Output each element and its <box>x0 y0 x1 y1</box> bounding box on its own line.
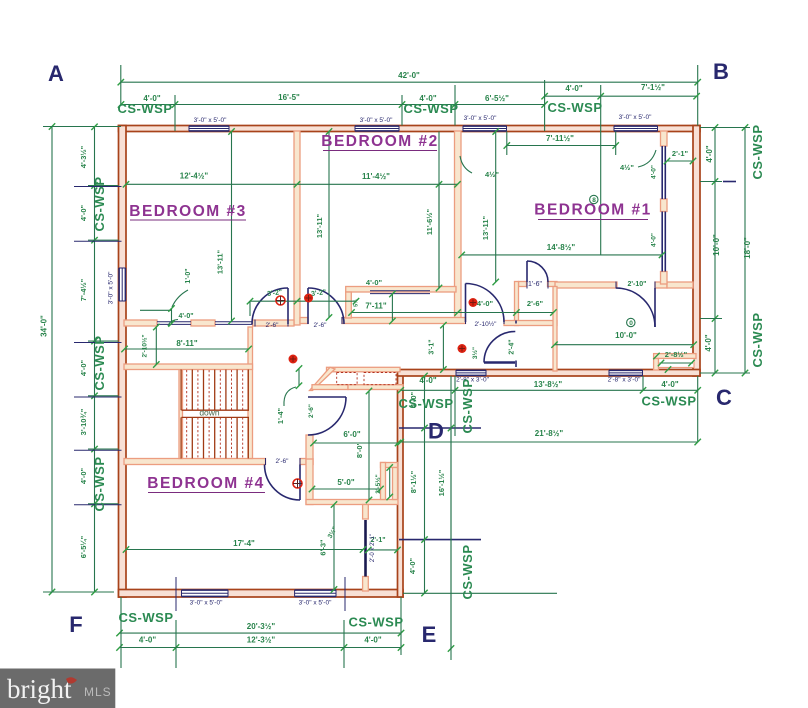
dimension row: 4-0 / 16-5 / 4-0 / 6-5half <box>121 104 545 106</box>
svg-text:10'-0": 10'-0" <box>615 331 637 340</box>
svg-text:CS-WSP: CS-WSP <box>92 177 107 232</box>
left outside dimension column 34ft <box>51 127 53 593</box>
dimension row right: 4-0 / 7-1half <box>545 95 697 97</box>
svg-text:BEDROOM #3: BEDROOM #3 <box>129 203 247 220</box>
bedroom4 north wall <box>124 459 266 465</box>
svg-text:4'-0": 4'-0" <box>139 636 156 645</box>
bath west wall (bottom section) <box>306 459 313 505</box>
window bedroom1 top-left 3-0x5-0 <box>463 126 507 131</box>
svg-text:17'-4": 17'-4" <box>233 539 255 548</box>
svg-text:4'-0": 4'-0" <box>651 233 658 247</box>
door bedroom2 (leaf + arc) <box>307 288 309 324</box>
svg-text:5½: 5½ <box>353 299 360 307</box>
dim 17-4 bedroom4 <box>126 549 363 551</box>
door at hall (swings up) <box>484 361 515 363</box>
exterior wall: east of bottom section <box>398 371 404 597</box>
dim 21-8half <box>401 441 698 443</box>
svg-text:12'-4½": 12'-4½" <box>180 172 209 181</box>
window hall bottom 2-8x3-0 <box>456 370 486 376</box>
svg-text:3'-0" x 5'-0": 3'-0" x 5'-0" <box>190 600 223 607</box>
svg-text:2'-4": 2'-4" <box>509 339 516 354</box>
svg-text:42'-0": 42'-0" <box>398 71 420 80</box>
svg-text:4'-0": 4'-0" <box>79 467 88 484</box>
vertical dim bedroom3 13-11 <box>231 132 233 322</box>
svg-text:CS-WSP: CS-WSP <box>750 313 765 368</box>
svg-text:CS-WSP: CS-WSP <box>460 545 475 600</box>
svg-text:3'-0" x 5'-0": 3'-0" x 5'-0" <box>108 271 115 304</box>
smoke detector markers (red) <box>276 296 285 305</box>
bedroom2 closet north wall <box>346 287 456 293</box>
bottom outside dims 20-3half and 4-0/12-3half/4-0 <box>120 632 402 634</box>
svg-text:7'-1½": 7'-1½" <box>641 83 665 92</box>
svg-text:5'-0": 5'-0" <box>337 478 354 487</box>
svg-text:2'-6": 2'-6" <box>266 322 280 329</box>
hall west wall above bedroom4 <box>306 435 313 465</box>
pantry closet: north wall <box>327 367 401 372</box>
dim 2-1 top right <box>667 160 693 162</box>
interior wall: bedroom2 south <box>300 318 308 324</box>
svg-text:MLS: MLS <box>84 685 112 699</box>
svg-text:C: C <box>716 385 732 410</box>
svg-text:3'-1": 3'-1" <box>429 339 436 354</box>
niche frame in bath east side <box>381 463 398 468</box>
svg-text:10'-0": 10'-0" <box>712 234 721 256</box>
closet/vestibule south wall <box>504 321 557 326</box>
svg-text:34'-0": 34'-0" <box>40 315 49 337</box>
svg-text:CS-WSP: CS-WSP <box>92 457 107 512</box>
door jamb marks <box>254 320 256 327</box>
navy braced-wall markers on left wall <box>74 186 122 188</box>
dim 7-11 bedroom2 closet <box>352 312 554 314</box>
svg-text:2'-6": 2'-6" <box>276 458 290 465</box>
dim 2-5half niche <box>389 468 391 498</box>
svg-text:6'-5½": 6'-5½" <box>485 94 509 103</box>
svg-text:3'-0" x 5'-0": 3'-0" x 5'-0" <box>360 117 393 124</box>
windows in bedroom1 east wall <box>661 146 663 199</box>
door bedroom3 (leaf + arc) <box>287 288 289 324</box>
svg-text:2'-6": 2'-6" <box>527 299 544 308</box>
svg-text:4'-0": 4'-0" <box>79 204 88 221</box>
exterior wall: top <box>119 126 701 132</box>
navy matchline D <box>399 427 481 429</box>
svg-text:CS-WSP: CS-WSP <box>118 101 173 116</box>
svg-text:13'-11": 13'-11" <box>481 216 490 241</box>
room dim line 12-4half / 11-4half <box>126 183 458 185</box>
svg-text:14'-8½": 14'-8½" <box>547 243 576 252</box>
stair west wall <box>179 370 183 459</box>
svg-text:bright: bright <box>7 674 72 704</box>
door hall to bath (bottom section) <box>308 396 346 398</box>
bright MLS watermark <box>0 669 115 708</box>
svg-text:1'-0": 1'-0" <box>185 268 192 283</box>
svg-text:CS-WSP: CS-WSP <box>460 379 475 434</box>
svg-text:2'-6": 2'-6" <box>308 404 315 418</box>
svg-text:16'-5": 16'-5" <box>278 93 300 102</box>
svg-text:4'-0": 4'-0" <box>364 636 381 645</box>
interior wall band y282-288 from bath to right window wall <box>519 282 527 287</box>
navy braced-wall markers on bottom wall <box>175 577 177 611</box>
svg-text:4'-0": 4'-0" <box>79 359 88 376</box>
svg-text:4'-0": 4'-0" <box>661 380 678 389</box>
svg-text:7'-4½": 7'-4½" <box>79 278 88 301</box>
window bedroom1 top-right 3-0x5-0 <box>614 126 658 131</box>
dimension 42ft-0 top <box>121 81 698 83</box>
svg-text:2'-1": 2'-1" <box>672 149 689 158</box>
navy closet headers in bedroom3 south wall <box>157 321 191 323</box>
svg-text:CS-WSP: CS-WSP <box>548 100 603 115</box>
svg-text:20'-3½": 20'-3½" <box>247 622 276 631</box>
bedroom1 east window wall with mullion posts <box>661 131 668 146</box>
bedroom2 closet west wall <box>346 292 352 318</box>
door bathroom2 entry <box>654 288 656 327</box>
windows bedroom4 bottom 3-0x5-0 <box>182 590 229 597</box>
svg-text:21'-8½": 21'-8½" <box>535 429 564 438</box>
svg-text:CS-WSP: CS-WSP <box>750 125 765 180</box>
svg-text:13'-11": 13'-11" <box>216 250 225 275</box>
door bedroom4 <box>299 465 301 501</box>
svg-text:3'-0" x 5'-0": 3'-0" x 5'-0" <box>619 114 652 121</box>
door bedroom1 vestibule <box>465 284 467 323</box>
dim 3-2 doors row <box>250 300 356 302</box>
svg-text:3'-0" x 5'-0": 3'-0" x 5'-0" <box>194 117 227 124</box>
svg-text:2'-10½": 2'-10½" <box>141 334 149 357</box>
svg-text:1'-4": 1'-4" <box>276 407 285 424</box>
vertical dim bedroom2 13-11 <box>328 132 330 318</box>
svg-text:4'-0": 4'-0" <box>705 145 714 162</box>
svg-text:2'-6": 2'-6" <box>314 322 328 329</box>
vertical dim bedroom2 11-6half <box>438 184 440 288</box>
linen closet west wall <box>515 282 519 326</box>
dim 1-4 hall <box>298 369 300 386</box>
svg-text:2'-10": 2'-10" <box>628 281 647 288</box>
svg-text:D: D <box>428 419 444 444</box>
svg-text:6'-0": 6'-0" <box>343 430 360 439</box>
window in bedroom4 east wall <box>364 520 367 577</box>
vertical dim bedroom1 13-11 <box>495 132 497 283</box>
svg-text:8'-1½": 8'-1½" <box>409 470 418 493</box>
svg-text:3'-0" x 5'-0": 3'-0" x 5'-0" <box>299 600 332 607</box>
interior wall: bedroom3 south / hall north, with closet openings <box>124 320 157 326</box>
svg-text:B: B <box>713 59 729 84</box>
svg-text:down: down <box>199 408 220 418</box>
landing east wall / bedroom3 closet east wall <box>248 327 253 459</box>
svg-text:CS-WSP: CS-WSP <box>92 336 107 391</box>
bath south wall <box>306 500 398 505</box>
svg-text:8'-0": 8'-0" <box>355 441 364 458</box>
svg-text:2'-10½": 2'-10½" <box>475 320 498 328</box>
svg-text:CS-WSP: CS-WSP <box>404 101 459 116</box>
svg-text:3½": 3½" <box>471 347 479 359</box>
svg-text:BEDROOM #1: BEDROOM #1 <box>534 202 652 219</box>
svg-text:7'-11½": 7'-11½" <box>546 134 574 143</box>
svg-text:4'-0": 4'-0" <box>477 299 494 308</box>
svg-text:2'-8½": 2'-8½" <box>665 350 688 359</box>
exterior wall: bottom of main right section <box>398 370 701 377</box>
svg-text:6'-3": 6'-3" <box>319 539 328 556</box>
left dim ticks column <box>94 127 96 592</box>
dim 5-0 bath <box>312 488 381 490</box>
pantry diagonal wall <box>310 367 336 390</box>
svg-text:4'-0": 4'-0" <box>408 557 417 574</box>
svg-text:CS-WSP: CS-WSP <box>399 396 454 411</box>
exterior wall: left <box>119 126 127 598</box>
window bathroom2 bottom 2-8x3-0 <box>609 370 643 376</box>
dim 3-1 hall <box>442 325 444 369</box>
svg-text:4½": 4½" <box>485 170 499 179</box>
dim 6-3 3/8 bedroom4 <box>333 505 335 590</box>
vertical dim stack x424: 4-0 / 8-1half / 4-0 <box>424 376 426 593</box>
svg-text:11'-6½": 11'-6½" <box>425 208 434 235</box>
bathroom2 (10ft room) west wall <box>553 287 557 372</box>
svg-text:4'-0": 4'-0" <box>565 84 582 93</box>
svg-text:3'-0" x 5'-0": 3'-0" x 5'-0" <box>464 115 497 122</box>
svg-text:A: A <box>48 61 64 86</box>
svg-text:16'-1½": 16'-1½" <box>437 469 446 496</box>
dim 2-1 east closet <box>368 549 397 551</box>
closet depth dim <box>391 294 393 321</box>
svg-text:F: F <box>69 612 82 637</box>
exterior wall: right of main section <box>693 126 700 377</box>
door linen closet 1-6 <box>526 261 528 282</box>
pantry south wall <box>312 385 348 390</box>
svg-text:4½": 4½" <box>620 163 634 172</box>
bedroom4 east closet: wall stub + window <box>363 505 369 520</box>
window bedroom2 top 3-0x5-0 <box>355 126 399 131</box>
dim 8-11 bedroom3 closet <box>125 348 249 350</box>
bedroom3 closet south wall <box>124 364 253 370</box>
svg-text:CS-WSP: CS-WSP <box>119 610 174 625</box>
dim 2-10half closet <box>155 327 157 365</box>
svg-text:CS-WSP: CS-WSP <box>642 394 697 409</box>
svg-text:2'-8" x 3'-0": 2'-8" x 3'-0" <box>608 377 641 384</box>
window left wall bedroom3 3-0x5-0 <box>119 268 126 301</box>
svg-text:E: E <box>422 622 437 647</box>
svg-text:13'-11": 13'-11" <box>315 214 324 239</box>
svg-text:3'-10¾": 3'-10¾" <box>79 408 88 435</box>
pantry red dashed shelves <box>337 373 357 385</box>
svg-text:1'-6": 1'-6" <box>528 281 542 288</box>
exterior wall: bottom of bedroom4 section <box>119 590 404 598</box>
interior wall between bedroom3 and bedroom2 <box>294 131 300 325</box>
svg-text:4'-0": 4'-0" <box>704 334 713 351</box>
svg-text:CS-WSP: CS-WSP <box>349 615 404 630</box>
right outside dims 4-0/10-0/4-0 and 18-0 <box>714 128 716 374</box>
dim 10-0 bathroom2 <box>555 344 694 346</box>
svg-text:4'-0": 4'-0" <box>178 313 193 320</box>
svg-text:13'-8½": 13'-8½" <box>534 380 563 389</box>
svg-text:BEDROOM #4: BEDROOM #4 <box>147 475 265 492</box>
svg-text:4'-0": 4'-0" <box>419 376 436 385</box>
dims below main right section: 13-8half / 4-0 row <box>401 389 698 391</box>
bottom reference extension line <box>403 592 557 594</box>
svg-text:2'-5½": 2'-5½" <box>374 474 382 493</box>
dim bedroom1 7-11half <box>507 145 616 147</box>
svg-text:7'-11": 7'-11" <box>365 302 386 311</box>
svg-text:4'-0": 4'-0" <box>366 278 383 287</box>
svg-text:8'-11": 8'-11" <box>176 339 197 348</box>
svg-text:11'-4½": 11'-4½" <box>362 172 390 181</box>
shelf in bottom-right closet with dim arrows <box>659 359 695 368</box>
svg-text:12'-3½": 12'-3½" <box>247 636 276 645</box>
interior wall between bedroom2 and bedroom1 <box>455 131 462 321</box>
svg-text:4'-0": 4'-0" <box>651 165 658 179</box>
navy matchline lower <box>399 539 481 541</box>
dim 8-0 bath <box>368 391 370 500</box>
dim 6-0 bath <box>314 442 399 444</box>
stairs: two flights with risers and red hatching <box>181 370 249 459</box>
svg-text:6'-5¼": 6'-5¼" <box>79 535 88 558</box>
navy shelf lines in bedroom2 closet <box>370 290 430 292</box>
dim bedroom1 14-8half <box>462 254 662 256</box>
window bedroom3 top 3-0x5-0 <box>189 126 229 131</box>
svg-text:BEDROOM #2: BEDROOM #2 <box>321 133 439 150</box>
svg-text:4'-3½": 4'-3½" <box>79 145 88 168</box>
svg-text:18'-0": 18'-0" <box>743 237 752 259</box>
vertical dim 16-1half <box>450 428 452 649</box>
bathroom2 closet bottom-right <box>654 354 696 359</box>
svg-text:2'-0 x 2'-1": 2'-0 x 2'-1" <box>370 534 376 562</box>
